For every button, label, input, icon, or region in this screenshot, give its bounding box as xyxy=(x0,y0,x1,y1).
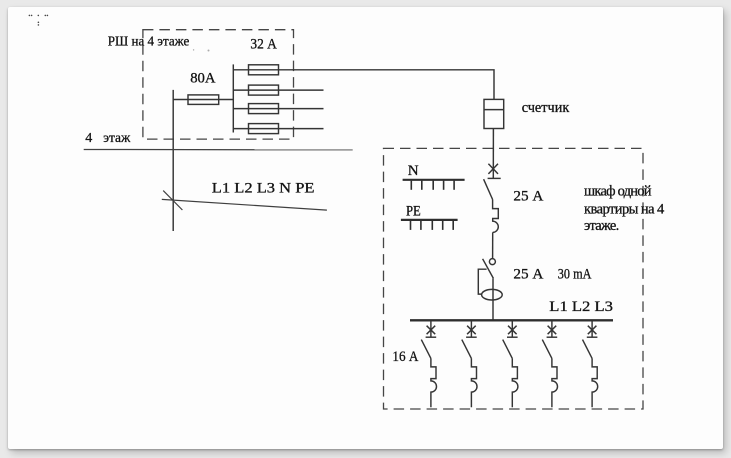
svg-text:30 mА: 30 mА xyxy=(558,267,592,283)
circuit breaker QF1 25A xyxy=(484,164,501,233)
svg-text:PE: PE xyxy=(406,203,421,219)
meter W счетчик xyxy=(484,99,504,128)
apartment cabinet dashed box xyxy=(384,148,644,409)
svg-text:N: N xyxy=(408,163,419,179)
svg-text:этаж: этаж xyxy=(103,131,131,146)
wire 80A feed horizontal xyxy=(173,99,233,101)
fuse F4 32A xyxy=(249,124,279,134)
RCD QD1 25A 30mA xyxy=(478,259,502,300)
floor level line xyxy=(84,149,353,151)
feeder line L1 L2 L3 N PE xyxy=(162,199,327,210)
svg-text:РШ на 4 этаже: РШ на 4 этаже xyxy=(108,35,190,50)
svg-text:L1 L2 L3: L1 L2 L3 xyxy=(549,299,613,315)
riser wire with 80A fuse feed xyxy=(172,90,174,231)
circuit breaker QF4 16A branch 3 xyxy=(503,321,518,407)
svg-text:80А: 80А xyxy=(190,71,215,87)
svg-text:этаже.: этаже. xyxy=(584,218,619,234)
svg-text:шкаф одной: шкаф одной xyxy=(584,183,652,199)
fuse F2 32A xyxy=(249,85,279,95)
svg-text:16 А: 16 А xyxy=(392,349,418,365)
wire RCD to distribution busbar xyxy=(492,278,494,320)
wire branch 1 to meter xyxy=(233,70,494,100)
distribution board dashed box РШ xyxy=(143,30,294,139)
wire meter to breaker QF1 xyxy=(492,129,494,179)
svg-text:32 А: 32 А xyxy=(250,37,277,53)
svg-text:L1 L2 L3 N PE: L1 L2 L3 N PE xyxy=(212,180,315,196)
circuit breaker QF5 16A branch 4 xyxy=(542,321,557,407)
circuit breaker QF6 16A branch 5 xyxy=(583,321,598,407)
svg-text:счетчик: счетчик xyxy=(522,100,570,116)
cable slash 5 conductors xyxy=(163,191,182,210)
N busbar xyxy=(403,180,465,190)
distribution busbar xyxy=(410,319,613,321)
svg-text:квартиры на 4: квартиры на 4 xyxy=(584,202,665,218)
fuse F1 32A xyxy=(249,65,279,75)
svg-text:25 А: 25 А xyxy=(513,189,543,205)
label шкаф одной квартиры на 4 этаже xyxy=(584,183,665,234)
wire branch 2 xyxy=(233,89,323,91)
fuse F3 32A xyxy=(249,104,279,114)
riser bus vertical xyxy=(232,64,234,132)
svg-text:4: 4 xyxy=(85,131,92,146)
PE busbar xyxy=(401,220,458,230)
circuit breaker QF2 16A branch 1 xyxy=(421,321,436,407)
wire breaker to RCD xyxy=(492,232,494,258)
fuse F5 80A xyxy=(188,95,219,105)
svg-text:25 А: 25 А xyxy=(513,267,543,283)
wire branch 4 xyxy=(233,128,323,130)
wire branch 3 xyxy=(233,108,323,110)
circuit breaker QF3 16A branch 2 xyxy=(462,321,477,407)
